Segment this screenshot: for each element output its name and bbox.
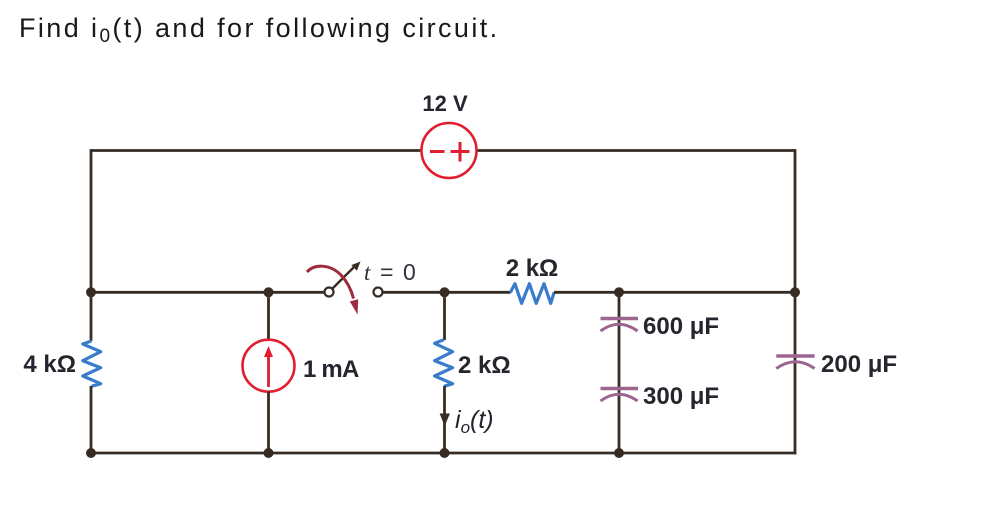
resistor R1 4 kOhm vertical	[90, 292, 93, 341]
wire middle rail segment 2	[383, 291, 511, 294]
wire bottom rail	[90, 452, 797, 455]
wire left rail	[90, 149, 93, 294]
svg-text:2 kΩ: 2 kΩ	[506, 255, 559, 282]
node dot cap branch top	[614, 287, 624, 297]
svg-text:300 μF: 300 μF	[643, 383, 719, 410]
svg-text:600 μF: 600 μF	[643, 313, 719, 340]
wire top rail right segment	[476, 149, 795, 152]
wire capacitor branch x=619	[618, 292, 621, 453]
node dot current source top	[264, 287, 274, 297]
svg-text:t = 0: t = 0	[364, 259, 417, 285]
wire top rail left segment	[91, 149, 422, 152]
svg-text:2 kΩ: 2 kΩ	[458, 352, 511, 379]
resistor R3 2 kOhm vertical	[443, 292, 446, 340]
node dot left-bottom	[86, 448, 96, 458]
capacitor C1 600 uF	[601, 319, 639, 332]
svg-text:4 kΩ: 4 kΩ	[23, 351, 76, 378]
wire middle rail segment 1	[90, 291, 325, 294]
svg-text:200 μF: 200 μF	[821, 351, 897, 378]
node dot cap branch bottom	[614, 448, 624, 458]
switch SW1	[307, 262, 383, 315]
svg-text:io(t): io(t)	[455, 406, 494, 437]
svg-text:Find i0(t) and for following c: Find i0(t) and for following circuit.	[19, 13, 500, 47]
svg-text:1 mA: 1 mA	[303, 356, 359, 383]
node dot right-middle	[790, 287, 800, 297]
voltage source V1 12 V	[422, 123, 477, 178]
node dot current source bottom	[264, 448, 274, 458]
svg-text:12 V: 12 V	[422, 91, 468, 116]
current source I1 1 mA	[267, 292, 270, 340]
resistor R2 2 kOhm horizontal	[510, 284, 554, 304]
node dot left-middle	[86, 287, 96, 297]
node dot R3 bottom	[440, 448, 450, 458]
arrow io(t) current direction	[440, 414, 450, 427]
wire middle rail segment 3	[554, 291, 796, 294]
wire right rail	[794, 149, 797, 454]
capacitor C2 300 uF	[601, 389, 639, 402]
node dot R3 top	[440, 287, 450, 297]
capacitor C3 200 uF	[776, 356, 814, 369]
